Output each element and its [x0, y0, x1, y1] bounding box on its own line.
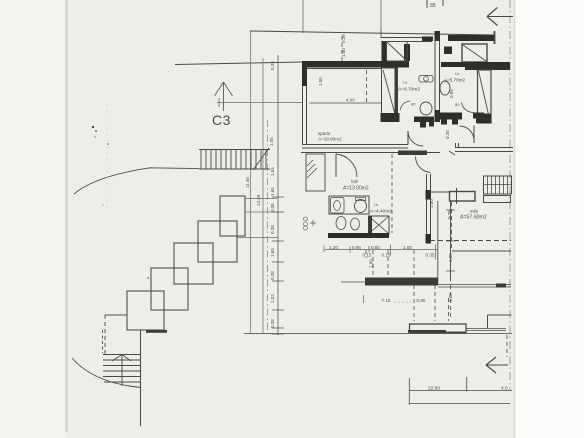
svg-text:0.38: 0.38 — [270, 203, 275, 212]
svg-text:12.40: 12.40 — [256, 194, 261, 206]
svg-text:1.20: 1.20 — [329, 245, 338, 250]
svg-text:1.55: 1.55 — [269, 137, 274, 146]
svg-text:0.35: 0.35 — [447, 210, 452, 219]
svg-text:C3: C3 — [212, 112, 231, 128]
svg-text:sala: sala — [470, 209, 479, 214]
svg-text:0.38: 0.38 — [270, 319, 275, 328]
svg-text:0.80: 0.80 — [371, 245, 380, 250]
svg-text:4.0: 4.0 — [501, 386, 508, 392]
svg-text:i.s.: i.s. — [403, 80, 408, 85]
svg-text:1.80: 1.80 — [448, 253, 453, 262]
svg-text:4.00: 4.00 — [346, 98, 355, 103]
svg-text:80: 80 — [455, 102, 460, 107]
svg-text:i.s.: i.s. — [455, 71, 460, 76]
svg-text:1.80: 1.80 — [369, 259, 374, 268]
svg-text:11.40: 11.40 — [245, 177, 250, 188]
svg-text:hall: hall — [351, 179, 358, 184]
svg-text:1.00: 1.00 — [341, 48, 346, 57]
svg-text:i.s.: i.s. — [374, 202, 379, 207]
svg-text:A=5.70m2: A=5.70m2 — [444, 78, 466, 83]
svg-text:A=6.70m2: A=6.70m2 — [398, 87, 420, 93]
svg-text:0.35: 0.35 — [445, 130, 450, 139]
svg-text:0.39: 0.39 — [341, 34, 346, 43]
svg-text:85: 85 — [430, 3, 436, 9]
svg-text:A=18.90m2: A=18.90m2 — [318, 137, 342, 142]
svg-text:7.15: 7.15 — [382, 298, 391, 303]
svg-text:1.65: 1.65 — [270, 187, 275, 196]
svg-text:1.80: 1.80 — [429, 199, 434, 208]
svg-text:0.38: 0.38 — [270, 271, 275, 280]
svg-text:aparta: aparta — [318, 131, 331, 136]
svg-text:0.38: 0.38 — [270, 225, 275, 234]
svg-text:1.80: 1.80 — [448, 293, 453, 302]
svg-text:0.95: 0.95 — [417, 298, 426, 303]
svg-text:1.00: 1.00 — [318, 77, 323, 86]
svg-text:1.65: 1.65 — [270, 167, 275, 176]
svg-text:1.65: 1.65 — [270, 248, 275, 257]
svg-text:80: 80 — [411, 102, 416, 107]
svg-text:A=57.50m2: A=57.50m2 — [460, 215, 487, 221]
svg-text:1.52: 1.52 — [270, 294, 275, 303]
svg-text:0.35: 0.35 — [426, 253, 435, 258]
svg-text:22.60: 22.60 — [428, 386, 440, 392]
svg-text:0.15: 0.15 — [363, 253, 372, 258]
svg-text:A=4.40m2: A=4.40m2 — [370, 209, 392, 215]
svg-text:A=13.00m2: A=13.00m2 — [343, 186, 369, 192]
svg-text:0.15: 0.15 — [382, 253, 391, 258]
svg-text:0.85: 0.85 — [352, 245, 361, 250]
svg-text:0.39: 0.39 — [270, 61, 275, 70]
svg-text:1.00: 1.00 — [403, 245, 412, 250]
svg-text:0.65: 0.65 — [449, 89, 454, 98]
